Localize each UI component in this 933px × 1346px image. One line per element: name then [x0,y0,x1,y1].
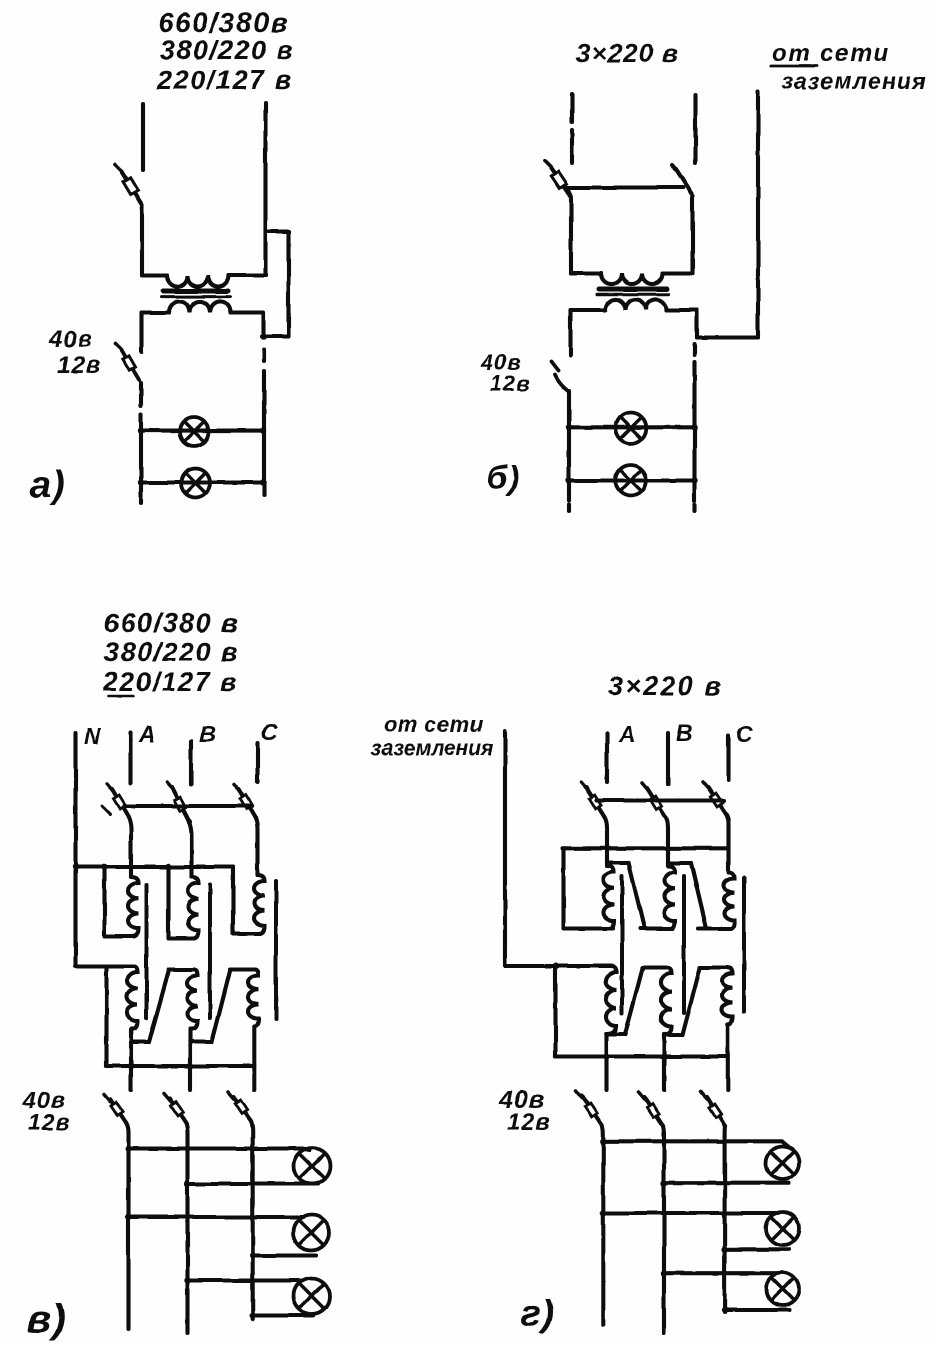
svg-text:от сети: от сети [384,712,484,737]
transformer T1 core line 2 circuit a [161,295,230,298]
node: B output on bus circuit v [187,1063,193,1069]
wire: left lamp feeder circuit b [567,391,571,501]
switch S2 circuit a [116,344,140,381]
wire: phase A drop circuit v [128,816,131,877]
node: B output on bus circuit g [661,1053,667,1059]
lamp EL2 circuit a [181,469,210,498]
wire: neutral bus circuit v [76,865,234,869]
node: jumper to right feeder circuit a [261,334,267,340]
transformer primary winding B circuit v [188,877,199,939]
node: row1 B junction circuit g [661,1181,667,1187]
switch SA circuit g [581,782,605,818]
node: N to bus circuit v [72,864,78,870]
wire: secondary right stub circuit a [231,310,264,314]
lamp EL3 circuit v [294,1278,330,1314]
transformer T1 primary winding circuit a [167,276,229,287]
wire: lamp feeder A circuit g [602,1125,603,1325]
svg-text:B: B [199,721,217,747]
switch SC circuit g [703,782,726,814]
wire: primary left stub circuit a [142,273,167,277]
wire: phase C drop circuit v [255,816,258,875]
wire: lamp row1 bottom circuit v [188,1182,319,1186]
wire: primary right stub circuit a [229,273,266,277]
wire: secondary left drop circuit b [568,310,572,356]
wire: switch-row link circuit v [124,804,252,808]
wire: lamp row3 top circuit g [664,1271,779,1275]
switch SA circuit v [107,784,128,816]
svg-text:б): б) [487,459,520,496]
svg-text:N: N [84,723,102,749]
svg-text:660/380 в: 660/380 в [104,608,239,638]
wire: jumper loop circuit a [262,232,289,337]
transformer core B circuit v [208,884,212,1018]
wire: secondary right stub circuit b [667,308,698,312]
node: row2 C junction circuit g [721,1246,727,1252]
node: row3 B junction circuit g [661,1270,667,1276]
transformer T1 core line 1 circuit b [599,287,667,292]
wire: grounding network line circuit g [503,731,507,966]
wire: circuit b phase2 feeder [693,95,697,163]
wire: lamp feeder A circuit v [126,1123,129,1329]
wire: secondary right drop circuit a [261,313,265,339]
wire: secondary left drop circuit a [139,313,143,353]
lamp EL1 circuit a [180,417,209,446]
wire: neutral N feeder circuit v [73,733,77,966]
node: A output on bus circuit g [603,1053,609,1059]
svg-text:A: A [138,721,157,747]
wire: circuit b phase1 feeder lower [570,130,574,163]
lamp EL2 circuit v [294,1215,330,1251]
transformer T1 core line 1 circuit a [163,289,228,294]
wire: zigzag stub B circuit g [664,1033,683,1037]
switch SB circuit v [167,782,190,822]
svg-text:12в: 12в [490,371,531,396]
wire: phase B drop circuit v [189,822,192,877]
wire: phase B feeder circuit v [189,741,193,784]
wire: right lamp feeder circuit b [692,379,696,501]
node: junction left row1 circuit b [566,424,572,430]
wire: right lamp feeder circuit a [262,385,266,495]
wire: phase B feeder circuit g [666,733,670,784]
wire: secondary A output circuit g [604,1034,608,1090]
svg-text:а): а) [30,464,66,506]
wire: zigzag diagonal A-B circuit g [625,968,643,1035]
wire: zigzag stub B circuit v [191,1040,213,1044]
wire: left lamp feeder circuit a [139,414,143,503]
wire: circuit b left drop [565,188,571,274]
wire: circuit a left feeder to transformer [140,205,144,274]
node: row2 A junction circuit v [125,1214,131,1220]
svg-text:заземления: заземления [781,68,927,94]
x mark at switch SA circuit v [102,806,110,814]
wire: phase C feeder circuit g [726,736,730,780]
node: row3 B junction circuit v [184,1277,190,1283]
wire: phase C drop circuit g [726,814,729,872]
svg-text:от сети: от сети [772,40,890,67]
wire: zigzag diagonal A-B circuit v [149,971,169,1042]
wire: delta top bus circuit g [563,846,729,850]
wire: secondary B output circuit v [188,1029,192,1090]
wire: lamp row3 bottom circuit v [253,1313,313,1317]
wire: secondary C top link circuit v [230,967,255,971]
wire: switch-row link circuit g [596,798,724,802]
wire: grounding network line circuit b [756,92,760,338]
wire: secondary bus circuit v [107,1064,255,1068]
switch S1 circuit b [545,161,571,197]
wire: secondary bus circuit g [556,1054,728,1058]
node: row3 C junction circuit v [250,1312,256,1318]
node: leg B on bus circuit v [165,864,171,870]
transformer secondary winding C circuit v [248,970,259,1027]
transformer secondary winding C circuit g [722,968,733,1025]
wire: secondary A output circuit v [129,1029,133,1090]
lamp EL2 circuit g [766,1212,799,1245]
wire: delta return to coil A circuit g [564,848,614,928]
node: junction right row1 circuit b [691,424,697,430]
wire: secondary left stub circuit b [571,308,606,312]
wire: lamp feeder C circuit v [251,1121,253,1319]
node: A output on bus circuit v [128,1063,134,1069]
wire: left lamp feeder dash circuit a [139,383,143,406]
switch S3 circuit b [551,362,568,391]
wire: coil C bottom link circuit g [698,926,731,930]
svg-text:заземления: заземления [371,737,493,760]
node: row2 C junction circuit v [250,1252,256,1258]
wire: ground link horizontal circuit b [697,335,758,339]
wire: primary right stub circuit b [663,271,693,275]
wire: lamp feeder C circuit g [723,1126,728,1312]
wire: coil B bottom link circuit g [640,926,673,930]
wire: phase B drop circuit g [666,818,668,866]
wire: delta diagonal A circuit g [629,863,645,929]
wire: left feeder end tick circuit b [567,505,571,511]
switch SB2 circuit v [164,1094,186,1123]
wire: delta stub A circuit g [607,861,629,865]
wire: lamp row2 bottom circuit g [725,1247,789,1251]
svg-text:B: B [676,720,694,746]
svg-text:40в: 40в [48,326,93,353]
wire: right feeder dash1 circuit b [692,344,696,355]
wire: lamp row 2 circuit a [141,480,260,484]
wire: lamp row 2 circuit b [569,478,695,482]
transformer secondary winding A circuit v [127,967,138,1030]
wire: secondary right drop circuit b [695,310,699,338]
wire: circuit a left feeder upper [141,104,145,170]
transformer secondary winding B circuit v [187,970,198,1030]
node: leg A on bus circuit v [101,864,107,870]
wire: right feeder dash2 circuit b [692,362,696,377]
svg-text:380/220 в: 380/220 в [104,637,239,667]
switch SA2 circuit g [576,1091,602,1125]
transformer core C circuit g [742,878,746,1012]
wire: primary A return leg circuit v [105,867,134,937]
node: junction right row2 circuit a [260,479,266,485]
lamp EL2 circuit b [615,465,646,496]
node: row1 B junction circuit v [184,1181,190,1187]
wire: lamp row3 bottom circuit g [725,1308,789,1312]
svg-text:12в: 12в [28,1109,70,1135]
svg-text:12в: 12в [57,352,101,379]
wire: secondary B top link circuit g [643,965,666,969]
transformer primary winding B circuit g [665,866,676,929]
svg-text:3×220 в: 3×220 в [608,671,723,701]
transformer T1 primary winding circuit b [601,274,663,285]
wire: phase A drop circuit g [605,818,607,866]
wire: lamp row 1 circuit a [141,429,260,433]
wire: secondary left leg circuit g [553,966,557,1057]
svg-text:220/127 в: 220/127 в [156,65,293,95]
wire: lamp row1 top circuit g [603,1141,787,1146]
node: junction left row1 circuit a [138,427,144,433]
transformer core B circuit g [682,876,686,1013]
switch SC circuit v [234,784,255,816]
wire: lamp row3 top circuit v [188,1278,302,1282]
lamp EL1 circuit v [294,1148,330,1184]
transformer T1 secondary winding circuit a [169,301,231,312]
lamp EL1 circuit g [766,1147,799,1180]
transformer core A circuit g [620,876,624,1013]
wire: zigzag diagonal B-C circuit v [212,971,230,1042]
svg-text:660/380в: 660/380в [158,7,289,38]
wire: circuit b phase1 feeder upper [570,94,574,122]
svg-text:C: C [736,721,754,747]
wire: lamp row2 bottom circuit v [253,1253,316,1257]
wire: circuit b top link [565,185,683,189]
wire: delta stub B circuit g [668,861,691,865]
lamp EL1 circuit b [615,413,646,444]
underline under 220 circuit v [108,695,133,698]
wire: secondary C output circuit g [726,1024,730,1090]
svg-text:220/127 в: 220/127 в [102,667,238,697]
switch SB circuit g [642,783,666,818]
transformer primary winding A circuit g [604,866,615,929]
wire: secondary B top link circuit v [169,967,194,971]
wire: secondary C top link circuit g [700,965,726,969]
transformer primary winding C circuit v [254,875,264,934]
transformer primary winding C circuit g [724,872,735,929]
node: junction right row1 circuit a [260,427,266,433]
transformer core A circuit v [145,885,149,1018]
wire: primary B return leg circuit v [169,867,195,939]
wire: secondary left leg circuit v [104,967,108,1067]
wire: lamp feeder B circuit g [663,1126,664,1333]
svg-text:C: C [261,719,279,745]
node: ground tee circuit g [552,963,558,969]
node: row1 A junction circuit v [125,1145,131,1151]
switch SC2 circuit v [228,1092,251,1121]
switch SA2 circuit v [104,1094,126,1123]
transformer T1 secondary winding circuit b [605,299,667,310]
wire: circuit b right drop [690,198,694,274]
transformer T1 core line 2 circuit b [597,293,669,296]
wire: secondary C output circuit v [252,1026,256,1090]
wire: primary C return leg circuit v [233,867,260,934]
wire: ground link horizontal circuit g [505,964,610,968]
wire: phase C feeder circuit v [255,743,259,782]
wire: zigzag stub A circuit v [131,1040,149,1044]
transformer secondary winding B circuit g [661,968,672,1035]
svg-text:380/220 в: 380/220 в [160,35,294,65]
wire: lamp feeder B circuit v [186,1123,188,1333]
node: row1 A junction circuit g [600,1139,606,1145]
svg-text:в): в) [27,1297,66,1341]
wire: N link to secondary circuit v [76,966,135,967]
svg-text:12в: 12в [507,1109,551,1136]
wire: delta diagonal B circuit g [691,863,707,929]
switch SC2 circuit g [701,1092,725,1126]
wire: lamp row2 top circuit g [603,1211,778,1215]
lamp EL3 circuit g [766,1273,799,1306]
wire: secondary B output circuit g [662,1035,666,1091]
transformer core C circuit v [274,881,278,1019]
wire: right feeder dash 2 circuit a [262,371,266,383]
svg-text:A: A [618,721,637,747]
switch S1 circuit a [116,165,143,206]
wire: zigzag diagonal B-C circuit g [683,968,701,1035]
wire: lamp row 1 circuit b [569,425,695,429]
wire: lamp row2 top circuit v [129,1215,304,1219]
wire: zigzag stub A circuit g [607,1032,625,1036]
wire: lamp row1 top circuit v [129,1149,310,1151]
wire: circuit a right feeder [263,103,267,276]
wire: primary left stub circuit b [571,271,601,275]
wire: lamp row1 bottom circuit g [664,1181,789,1185]
switch SB2 circuit g [638,1092,663,1126]
wire: secondary left stub circuit a [142,310,170,314]
node: junction left row2 circuit a [138,479,144,485]
wire: right feeder end tick circuit b [692,505,696,511]
transformer primary winding A circuit v [128,877,139,937]
svg-text:г): г) [521,1293,555,1334]
node: row3 C junction circuit g [721,1307,727,1313]
node: row2 A junction circuit g [600,1210,606,1216]
svg-text:3×220 в: 3×220 в [576,38,679,68]
wire: right feeder dash 1 circuit a [262,350,266,361]
wire: phase A feeder circuit g [605,734,609,782]
node: junction left row2 circuit b [566,477,572,483]
node: junction right row2 circuit b [691,477,697,483]
switch S2 circuit b [672,165,693,196]
transformer secondary winding A circuit g [606,966,617,1034]
underline under ot [771,65,817,68]
wire: phase A feeder circuit v [128,733,132,783]
